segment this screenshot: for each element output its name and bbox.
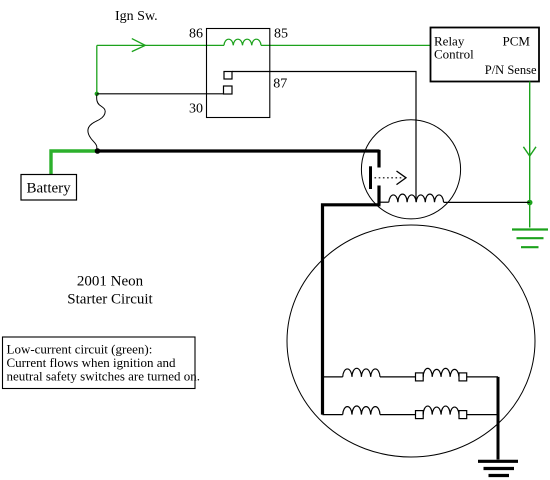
starter field coil 1A [343, 368, 380, 377]
wire row1 to right bus [467, 376, 498, 378]
wire: thick battery cable to solenoid contact [98, 149, 380, 152]
wire row2 middle [380, 414, 416, 416]
wire: coil return to green junction [444, 201, 530, 203]
wire: pin 87 to solenoid coil [232, 72, 416, 203]
dotted travel arrow [375, 177, 404, 179]
svg-text:86: 86 [189, 27, 203, 42]
svg-text:Battery: Battery [27, 181, 72, 197]
svg-text:85: 85 [274, 27, 288, 42]
battery box [21, 175, 77, 201]
svg-text:Starter Circuit: Starter Circuit [67, 292, 153, 308]
wire: thick green battery positive [51, 151, 98, 175]
relay contact square lower (pin 30) [224, 86, 233, 94]
wire row2 to right bus [467, 414, 498, 416]
note box [3, 337, 196, 389]
armature coil 2B [423, 406, 459, 415]
solenoid pull-in coil [389, 194, 444, 202]
PCM box [431, 28, 540, 82]
brush square row1 left [416, 373, 424, 381]
svg-text:Control: Control [434, 47, 474, 62]
wire: green continuation after relay coil to PCM box [261, 44, 430, 46]
svg-text:neutral safety switches are tu: neutral safety switches are turned on. [7, 369, 200, 384]
wire: relay pin 30 to junction (black thin) [97, 93, 224, 95]
brush square row2 left [416, 411, 424, 419]
wire: contact to coil base [380, 201, 389, 203]
starter field coil 2A [343, 406, 380, 415]
brush square row2 right [459, 411, 467, 419]
wire: hand-drawn squiggle down to battery node [88, 95, 105, 151]
node: green junction at pin30 wire [95, 92, 99, 96]
relay contact square upper (pin 87) [224, 72, 232, 80]
ground (black) [478, 461, 518, 475]
svg-text:2001 Neon: 2001 Neon [77, 274, 144, 290]
starter motor circle [287, 225, 535, 457]
solenoid fixed contact lower [377, 186, 380, 205]
wire: right bus down to ground [497, 377, 500, 460]
wire row1 middle [380, 376, 416, 378]
wire: thick cable solenoid to starter [323, 205, 381, 415]
svg-text:P/N Sense: P/N Sense [485, 63, 537, 77]
svg-text:Ign Sw.: Ign Sw. [115, 9, 158, 24]
starter winding row 2: feed from thick cable [323, 414, 343, 416]
solenoid circle [361, 120, 460, 219]
armature coil 1B [423, 368, 459, 377]
green current arrow on ignition feed [132, 39, 146, 52]
svg-text:PCM: PCM [503, 34, 531, 49]
ground (green) [512, 230, 548, 248]
solenoid plunger bar [369, 166, 372, 189]
brush square row1 right [459, 373, 467, 381]
svg-text:87: 87 [273, 77, 287, 92]
wire: green vertical drop from ignition feed [96, 45, 98, 93]
green current arrow down [523, 147, 536, 156]
relay coil (green) [224, 39, 261, 45]
node: green junction at solenoid coil return [527, 200, 533, 206]
starter winding row 1: feed wire [323, 376, 343, 378]
svg-text:30: 30 [189, 102, 203, 117]
node: battery cable junction dot [95, 148, 101, 154]
wire: P/N Sense green vertical [529, 82, 531, 228]
relay box [207, 29, 270, 118]
solenoid fixed contact upper [377, 150, 380, 168]
wire: green ignition feed horizontal to PCM [97, 44, 224, 46]
